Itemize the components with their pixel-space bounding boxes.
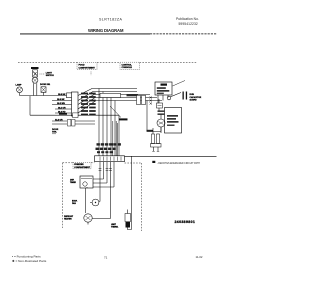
svg-text:- DENOTES ENERGIZED CIRCUIT PA: - DENOTES ENERGIZED CIRCUIT PATH [157,162,200,165]
svg-text:18-2 WH: 18-2 WH [57,103,65,105]
fanned wires to bundle [78,89,137,96]
energized circuit note [152,161,155,163]
label box tick [90,72,92,76]
bundle vertical drops [98,89,100,157]
svg-text:SWITCH: SWITCH [46,75,54,77]
svg-text:COMPARTMENT: COMPARTMENT [74,166,90,169]
bundle wire code labels [96,143,121,153]
bottom compressor wire [158,127,161,132]
wire loop left of compressor [147,101,158,132]
svg-text:15 MFD: 15 MFD [190,100,198,102]
svg-text:CAPACITOR: CAPACITOR [190,96,202,99]
freezer label box [73,162,91,169]
svg-text:THERM.: THERM. [111,226,119,228]
power supply line [125,155,217,157]
pointer from relay [173,81,186,87]
svg-text:TIMER: TIMER [70,182,77,184]
service cord plug [151,128,162,152]
svg-text:FAN: FAN [72,202,76,205]
header rule [20,33,150,35]
svg-text:18-5 BK: 18-5 BK [58,94,66,96]
junction circle [167,96,171,100]
control console label box [120,62,140,69]
heater wire right [92,218,110,220]
wire 18-3 BK [52,100,72,102]
timer bottom wire [85,188,87,213]
compressor box [165,108,182,134]
svg-text:18-4 RD: 18-4 RD [58,110,66,113]
overload connecting pins [159,99,161,133]
left branch wire [30,96,119,115]
freezer vertical wires [99,162,101,202]
wire code labels right of connector [81,93,96,116]
svg-text:12-2 OR: 12-2 OR [55,119,63,121]
defrost heater [84,214,92,222]
defrost limit thermostat [125,210,132,230]
freezer connector bar [95,156,125,162]
svg-text:HTR.: HTR. [52,131,57,133]
overload cap bars [158,111,165,112]
junction hatches [150,97,153,105]
bundle extra wires [113,121,118,156]
svg-text:18-1 OR: 18-1 OR [58,107,66,109]
wire 18-2 WH [52,104,72,106]
inline connector on branch [73,113,79,118]
food compartment bus wire [20,95,72,97]
svg-text:11-02: 11-02 [196,255,203,259]
wide inline connector on bus [100,93,121,97]
svg-text:COMPARTMENT: COMPARTMENT [79,66,96,69]
PTC relay box [155,82,172,95]
svg-text:FREEZER: FREEZER [74,164,84,166]
fan wires [90,202,100,203]
run capacitor [171,93,181,97]
inline connector on bus [67,93,73,98]
overload relay piece [157,103,163,108]
svg-text:LAMP: LAMP [16,84,23,87]
twin connector blocks [137,95,141,104]
svg-text:240389801: 240389801 [175,220,196,224]
bus wire label [127,94,139,96]
svg-text:HEATER: HEATER [64,217,72,220]
light switch pointer [40,73,46,75]
lower wires with plug pair [52,121,95,124]
svg-text:CONSOLE: CONSOLE [122,67,133,69]
wire 18-1 OR [55,108,72,110]
door switch [41,87,46,93]
svg-text:5995412232: 5995412232 [179,22,198,26]
PTC pins [158,95,168,104]
ground pointer [110,106,121,118]
svg-text:RUN: RUN [190,94,195,96]
wire 18-4 RD [55,112,72,114]
svg-text:18-3 BK: 18-3 BK [57,99,65,101]
thermostat pins [33,83,37,95]
inline connector ticks [99,169,112,171]
svg-text:SLRT182ZA: SLRT182ZA [99,18,123,22]
svg-text:DOOR SW.: DOOR SW. [40,84,51,86]
svg-text:71: 71 [104,255,108,259]
svg-text:CONTROL: CONTROL [122,64,133,66]
evaporator fan motor [92,199,99,206]
power branch down [131,156,133,229]
svg-text:FOOD: FOOD [79,64,86,66]
defrost timer [80,176,93,188]
door switch pin [43,92,45,95]
harness connector J1 [72,92,79,116]
timer connecting wires [87,179,114,188]
overload protector circle [157,119,165,127]
food compartment label box [77,62,97,69]
food compartment dashed boundary [18,62,197,64]
svg-text:WIRING DIAGRAM: WIRING DIAGRAM [88,28,124,33]
svg-text:✱ = Non-Illustrated Parts: ✱ = Non-Illustrated Parts [12,259,47,263]
lamp [17,87,23,93]
svg-text:Publication No.: Publication No. [176,17,199,21]
cold control thermostat [31,67,39,83]
lamp wire down [19,93,21,96]
wire loop label BK [147,130,154,132]
freezer compartment dashed boundary [63,163,142,231]
